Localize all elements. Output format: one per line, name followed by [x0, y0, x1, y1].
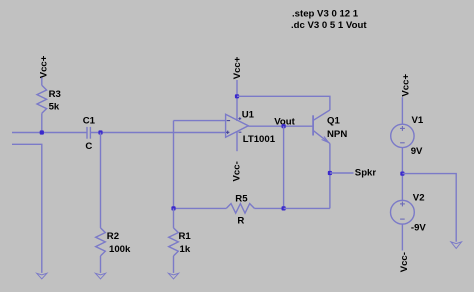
wire midpoint to right ground — [402, 174, 456, 242]
wire emitter down to feedback row — [329, 144, 331, 209]
svg-text:9V: 9V — [411, 146, 423, 157]
wire feedback vertical — [173, 121, 175, 209]
transistor Q1 collector diagonal — [313, 110, 330, 120]
svg-text:LT1001: LT1001 — [243, 134, 276, 145]
label LT1001 — [243, 134, 276, 145]
wire Vout down to feedback row — [283, 126, 285, 208]
op-amp non-inverting input mark — [226, 131, 229, 134]
svg-text:V2: V2 — [413, 193, 425, 204]
svg-text:R3: R3 — [49, 89, 61, 100]
svg-text:C: C — [85, 141, 92, 152]
svg-text:Vcc-: Vcc- — [232, 161, 243, 181]
power flag Vcc+ (left) — [38, 55, 49, 78]
node R5-Vout junction — [282, 206, 286, 210]
svg-text:R: R — [237, 215, 244, 226]
op-amp V- pin mark — [239, 131, 242, 133]
wire V2 bottom to Vcc- flag — [401, 224, 403, 251]
power flag Vcc- (op-amp) — [232, 161, 243, 181]
wire R1 top lead — [173, 208, 175, 228]
net label Spkr — [355, 168, 377, 179]
wire R2 bottom lead — [100, 256, 102, 273]
node Spkr junction — [328, 171, 332, 175]
label V1 — [412, 115, 424, 126]
node op-amp V+ junction — [235, 94, 239, 98]
voltage source V2 circle — [391, 200, 415, 224]
value -9V — [411, 223, 427, 234]
ground (R2) — [95, 273, 105, 279]
op-amp V+ pin mark — [238, 117, 241, 120]
op-amp U1 triangle — [226, 114, 249, 137]
wire op-amp output row — [248, 125, 313, 127]
svg-text:C1: C1 — [83, 116, 96, 127]
power flag Vcc+ (right) — [400, 74, 411, 97]
svg-text:100k: 100k — [109, 244, 131, 255]
svg-text:Vcc+: Vcc+ — [232, 56, 243, 79]
ground (R1) — [168, 273, 178, 279]
wire op-amp V- pin down — [236, 132, 238, 152]
wire input row left of C1 — [12, 132, 87, 134]
node supply midpoint junction — [400, 172, 404, 176]
V1 minus mark — [400, 142, 405, 144]
spice directive .step — [292, 8, 359, 19]
label Q1 — [327, 115, 340, 126]
svg-text:.dc V3 0 5 1 Vout: .dc V3 0 5 1 Vout — [291, 20, 367, 31]
power flag Vcc- (right) — [399, 252, 410, 272]
value 9V — [411, 146, 423, 157]
wire R2 top lead — [100, 133, 102, 228]
wire R3 bottom to input node — [41, 113, 43, 132]
op-amp inverting input mark — [227, 120, 230, 122]
label R5 — [235, 193, 248, 204]
wire R5 right lead — [254, 207, 283, 209]
svg-text:Vcc+: Vcc+ — [38, 55, 49, 78]
wire input stub row 2 — [12, 144, 42, 273]
wire feedback row left of R5 — [174, 207, 227, 209]
label NPN — [327, 129, 347, 140]
wire Vcc+ flag to V1 — [401, 97, 403, 124]
V2 minus mark — [400, 218, 405, 220]
label R1 — [179, 231, 192, 242]
svg-text:R5: R5 — [235, 193, 248, 204]
label U1 — [242, 109, 255, 120]
node input junction — [40, 130, 44, 134]
wire V1 bottom to V2 top — [401, 148, 403, 201]
transistor Q1 emitter arrow — [322, 137, 329, 143]
transistor Q1 emitter diagonal — [313, 131, 330, 144]
svg-text:R2: R2 — [107, 231, 119, 242]
V2 plus mark — [400, 202, 405, 207]
wire Vcc+ flag to op-amp V+ pin — [236, 80, 238, 121]
svg-text:U1: U1 — [242, 109, 255, 120]
svg-text:R1: R1 — [179, 231, 192, 242]
svg-text:Vcc-: Vcc- — [399, 252, 410, 272]
svg-text:1k: 1k — [180, 244, 191, 255]
wire op-amp inverting input row — [174, 120, 226, 122]
wire R1 bottom lead — [173, 256, 175, 273]
spice directive .dc — [291, 20, 367, 31]
label R3 — [49, 89, 61, 100]
svg-text:V1: V1 — [412, 115, 424, 126]
power flag Vcc+ (op-amp) — [232, 56, 243, 79]
wire Vcc+ flag to R3 top — [41, 78, 43, 86]
capacitor C1 plates — [87, 127, 90, 139]
resistor R2 body — [96, 228, 106, 256]
svg-text:.step V3 0 12 1: .step V3 0 12 1 — [292, 8, 359, 19]
wire top rail to Q1 collector — [237, 96, 330, 110]
wire feedback row to emitter column — [284, 207, 330, 209]
svg-text:Vcc+: Vcc+ — [400, 74, 411, 97]
value 1k — [180, 244, 191, 255]
value C — [85, 141, 92, 152]
label V2 — [413, 193, 425, 204]
wire Spkr stub — [330, 172, 354, 174]
node C1 output junction — [98, 130, 102, 134]
svg-text:Spkr: Spkr — [355, 168, 377, 179]
svg-text:5k: 5k — [49, 101, 60, 112]
value 5k — [49, 101, 60, 112]
wire C1 to op-amp +input — [90, 132, 225, 134]
value 100k — [109, 244, 131, 255]
resistor R1 body — [169, 228, 179, 256]
label R2 — [107, 231, 119, 242]
ground (supply midpoint) — [451, 242, 462, 249]
ground (left input) — [37, 273, 47, 279]
value R — [237, 215, 244, 226]
node feedback-R1 junction — [171, 206, 175, 210]
resistor R5 body — [226, 204, 254, 214]
node Vout label — [274, 117, 295, 128]
node Vout junction — [282, 124, 286, 128]
svg-text:Q1: Q1 — [327, 115, 340, 126]
transistor Q1 base bar — [312, 115, 314, 135]
voltage source V1 circle — [391, 124, 414, 147]
svg-text:-9V: -9V — [411, 223, 427, 234]
svg-text:NPN: NPN — [327, 129, 347, 140]
label C1 — [83, 116, 96, 127]
V1 plus mark — [400, 126, 405, 131]
resistor R3 body — [37, 85, 47, 113]
